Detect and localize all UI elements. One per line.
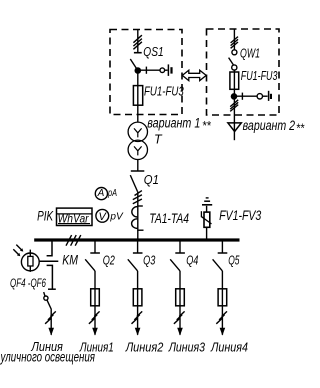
- svg-text:A: A: [97, 188, 105, 199]
- svg-text:TA1-TA4: TA1-TA4: [149, 211, 189, 226]
- svg-text:вариант 1: вариант 1: [147, 115, 200, 130]
- svg-text:Линия2: Линия2: [125, 339, 164, 354]
- svg-text:Линия4: Линия4: [210, 339, 248, 354]
- svg-text:Q5: Q5: [228, 253, 239, 267]
- svg-text:Q4: Q4: [186, 253, 198, 267]
- svg-text:Q1: Q1: [144, 173, 159, 187]
- svg-text:KM: KM: [62, 252, 78, 268]
- svg-text:pV: pV: [109, 210, 123, 222]
- svg-text:QS1: QS1: [143, 45, 163, 59]
- svg-text:QW1: QW1: [240, 47, 260, 61]
- svg-text:вариант 2: вариант 2: [243, 118, 296, 133]
- svg-text:FV1-FV3: FV1-FV3: [219, 208, 262, 223]
- svg-text:pA: pA: [107, 187, 117, 199]
- svg-text:уличного освещения: уличного освещения: [0, 349, 95, 364]
- svg-text:FU1-FU3: FU1-FU3: [241, 69, 278, 83]
- svg-text:Q2: Q2: [103, 253, 115, 267]
- svg-text:QF4 -QF6: QF4 -QF6: [10, 276, 46, 290]
- svg-text:Q3: Q3: [143, 253, 155, 267]
- svg-text:WhVar: WhVar: [58, 212, 90, 226]
- svg-text:**: **: [202, 119, 212, 133]
- svg-text:FU1-FU3: FU1-FU3: [144, 84, 184, 98]
- svg-text:PIK: PIK: [37, 208, 53, 224]
- svg-text:**: **: [296, 122, 305, 136]
- svg-text:Линия3: Линия3: [168, 339, 206, 354]
